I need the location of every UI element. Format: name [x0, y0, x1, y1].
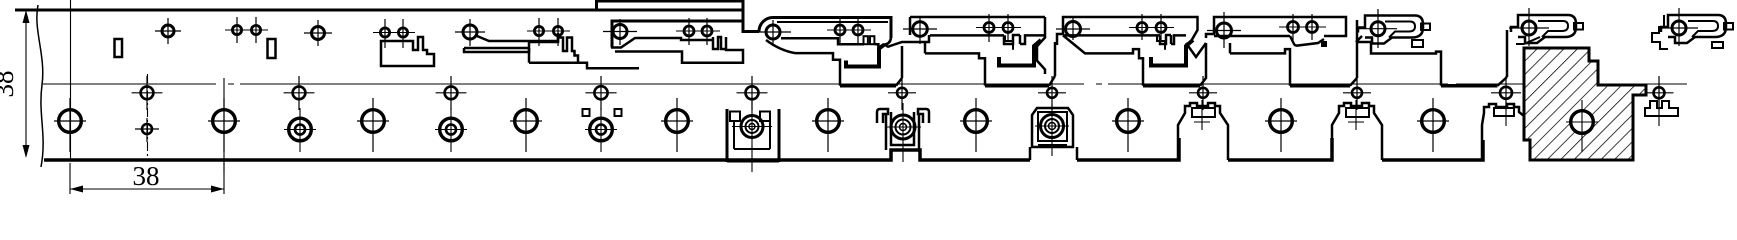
station 10 pilot hole — [1371, 22, 1385, 36]
station 5 raised flange block — [597, 1, 744, 48]
small hole x147 y129 — [142, 124, 152, 134]
middle row hole x1357 — [1352, 88, 1362, 98]
box2 tick and right vertical — [1049, 42, 1055, 86]
can x1356 — [1332, 103, 1382, 160]
large pierced hole x1433 — [1422, 110, 1445, 133]
station 10 J-hook profile — [1358, 16, 1423, 44]
cup x903 right flange — [918, 109, 929, 123]
middle row hole x1203 — [1198, 88, 1208, 98]
large pierced hole x1128 — [1117, 110, 1140, 133]
middle row hole x601 — [594, 86, 607, 99]
hole in hatched block — [1571, 111, 1594, 134]
horizontal center chain line — [43, 83, 1687, 85]
station 8 slab — [1057, 17, 1198, 45]
box4 bottom — [1290, 84, 1350, 88]
station 6 pair holes — [835, 25, 845, 35]
middle row hole x1506 — [1500, 87, 1512, 99]
middle row hole x902 — [897, 88, 907, 98]
station 12 foot rect — [1712, 42, 1723, 48]
station 6 pilot hole — [766, 25, 780, 39]
station 7 right zigzag side — [1037, 17, 1045, 74]
box2 tongue zigzag — [1005, 35, 1013, 49]
station 4 lower outline — [529, 38, 639, 69]
station 5 pilot hole — [613, 25, 627, 39]
station 8 V notch and box3 right — [1186, 43, 1206, 86]
vertical dimension line 38 — [25, 12, 27, 156]
station 8 pilot hole — [1066, 22, 1081, 37]
cup x1052 inner box — [1038, 112, 1067, 145]
bracket x752 inner — [734, 121, 770, 149]
strip bottom edge with cup step — [44, 150, 1030, 160]
can x1202 — [1178, 103, 1228, 160]
station 5 upper contour — [611, 38, 705, 48]
large pierced hole x1281 — [1270, 110, 1293, 133]
top pilot hole S4 — [463, 25, 477, 39]
middle row hole x451 — [445, 86, 458, 99]
bracket x752 squares — [730, 112, 740, 122]
cup x1052 rings — [1041, 115, 1064, 138]
station 6 bent flange arc — [759, 18, 891, 39]
top pair holes x237 x256 — [232, 25, 241, 34]
middle row hole x147 — [141, 86, 154, 99]
station 12 J-hook profile — [1661, 15, 1726, 43]
station 5 block right step — [743, 21, 759, 32]
box3 bottom — [1143, 84, 1200, 88]
station 3 blanked window — [381, 37, 434, 66]
box2 C-tongue — [999, 40, 1041, 66]
bottom dimension line — [70, 188, 224, 190]
box1 bottom — [840, 84, 896, 88]
station 7 slab — [910, 17, 1045, 35]
station 7 pair holes — [984, 23, 994, 33]
large pierced hole x224 — [213, 110, 236, 133]
bottom tab x1077-1179 — [1077, 138, 1179, 160]
box3 tongue zigzag — [1157, 35, 1165, 49]
station 8 pair holes — [1137, 23, 1147, 33]
station 4 left foot — [464, 48, 529, 52]
extruded hole x451 — [440, 118, 463, 141]
station 11 pilot hole — [1522, 21, 1536, 35]
bottom dim extension line left — [69, 163, 71, 194]
end bracket x1659 — [1645, 101, 1678, 116]
extruded hole x601 — [590, 118, 613, 141]
strip top edge — [15, 9, 743, 12]
bracket x752 rings — [741, 116, 763, 138]
station 9 pair holes — [1288, 22, 1299, 33]
bottom dim arrow right — [211, 186, 224, 193]
station 6 curl — [878, 38, 891, 48]
bottom tab x1228-1332 — [1228, 138, 1332, 160]
cup x903 rings — [891, 115, 915, 139]
cup x903 centerlines — [885, 103, 921, 162]
station 10 foot nub — [1412, 40, 1423, 47]
left break line — [37, 5, 43, 167]
station 12 lower steps — [1652, 15, 1668, 49]
middle row hole x1052 — [1047, 88, 1057, 98]
cup x1052 outer box — [1032, 108, 1073, 147]
station 7 left curl — [886, 35, 929, 47]
cup x1052 centerlines — [1035, 104, 1069, 156]
cutoff punch hatched block — [1524, 48, 1646, 160]
svg-text:38: 38 — [0, 71, 19, 98]
box3 C-tongue — [1151, 40, 1193, 66]
vertical dim arrow up — [23, 10, 30, 23]
box1 C-tongue — [846, 45, 885, 67]
station 7 shelf — [925, 43, 985, 86]
station 5 pair holes — [684, 26, 694, 36]
station 7 pilot hole — [913, 22, 928, 37]
box5 tick and right vertical — [1498, 30, 1508, 86]
box1 tick and right vertical — [896, 46, 902, 86]
station 7 castellation — [1004, 35, 1045, 44]
top pilot hole x318 — [312, 27, 325, 40]
middle row hole x752 — [746, 86, 759, 99]
centerline x148 dash-dot — [147, 74, 149, 160]
square punch left of x601 — [583, 109, 590, 116]
cup x903 body — [886, 112, 919, 150]
station 6 flange inner line — [777, 21, 888, 23]
large pierced hole x828 — [817, 110, 840, 133]
large pierced hole x526 — [515, 110, 538, 133]
svg-text:38: 38 — [133, 161, 160, 191]
station 11 J-hook profile — [1511, 15, 1576, 43]
centerline x224 — [223, 78, 225, 172]
large pierced hole x677 — [666, 110, 689, 133]
top pilot hole x168 — [162, 25, 174, 37]
box1 staircase — [795, 53, 840, 86]
station 12 pilot hole — [1672, 21, 1686, 35]
station 6 castellation bars — [864, 36, 868, 44]
station 4 bend profile — [477, 33, 558, 41]
station 8 diag to shelf — [1063, 35, 1143, 85]
middle row hole x1659 — [1654, 87, 1665, 98]
top pair holes S3 — [380, 28, 389, 37]
extruded hole x300 — [289, 118, 312, 141]
station 8 castellation — [1160, 35, 1186, 44]
station 10 foot — [1356, 36, 1441, 86]
top pair holes S4 — [534, 26, 543, 35]
station 9 pilot hole — [1217, 23, 1232, 38]
station 6 staircase — [766, 40, 795, 53]
box2 bottom — [985, 84, 1049, 88]
middle row hole x299 — [293, 86, 306, 99]
station 11 hook lower diag — [1516, 37, 1540, 44]
bracket x752 outer — [727, 109, 779, 162]
bottom dim arrow left — [70, 186, 83, 193]
bottom tab x1381-1483 — [1382, 140, 1483, 160]
station 5 castellation — [705, 37, 727, 50]
large pierced hole x373 — [362, 110, 385, 133]
large pierced hole x976 — [965, 110, 988, 133]
box4 tick and right vertical — [1350, 20, 1357, 86]
station 9 slab — [1206, 17, 1346, 38]
station 5 foot — [615, 50, 743, 63]
vertical dim arrow down — [23, 145, 30, 158]
station 9 shelf — [1230, 43, 1290, 86]
bottom dim extension line right — [223, 163, 225, 194]
large pierced hole x70 — [59, 110, 82, 133]
cup x903 left flange — [877, 109, 888, 123]
square punch right of x601 — [615, 109, 622, 116]
centerline station1 x71 — [70, 0, 72, 160]
bracket x752 centerlines — [732, 99, 772, 172]
station 9 curled tongue — [1290, 36, 1324, 46]
slot punch S1 — [115, 39, 123, 57]
station 9 small tab — [1321, 41, 1327, 47]
slot punch S2 — [268, 39, 276, 58]
bottom cut edge station x1052 — [1030, 147, 1077, 160]
box5 bottom — [1441, 84, 1498, 88]
station 6 slab bottom — [781, 38, 878, 48]
can x1506 — [1482, 104, 1528, 159]
